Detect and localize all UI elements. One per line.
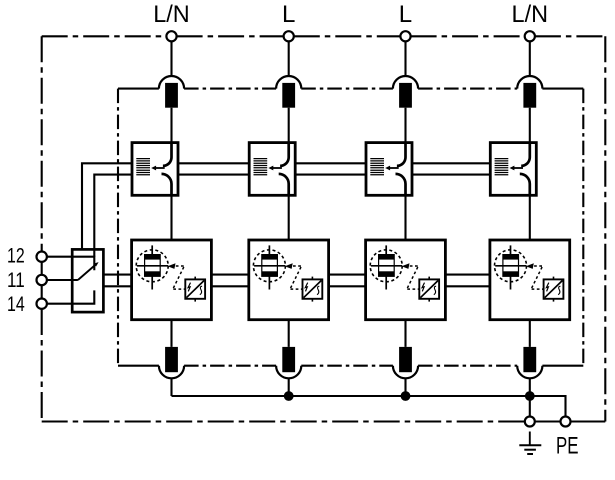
wire SG3 to varistor module MOV3 xyxy=(404,195,406,240)
disconnector F3 fuse body xyxy=(399,83,412,108)
spark gap SG2 trigger arrow xyxy=(273,167,282,169)
MOV2 mechanical linkage (dashed Z) xyxy=(290,266,302,289)
wire F1 to spark gap SG1 xyxy=(170,108,172,143)
svg-text:L: L xyxy=(282,1,295,28)
terminal 12 circle xyxy=(37,252,47,262)
terminal L/N circle column 1 xyxy=(166,31,176,41)
remote signalling contact box K1 xyxy=(72,249,103,312)
wire terminal 12 NC contact xyxy=(47,257,94,271)
trigger bus wires SG1-SG2 xyxy=(178,163,249,174)
outer enclosure border right xyxy=(604,36,606,421)
spark gap SG2 electrode wire top xyxy=(280,143,289,166)
wire terminal 4 to disconnector F4 xyxy=(529,41,531,76)
wire SG2 to varistor module MOV2 xyxy=(288,195,290,240)
MOV1 thermal disconnect fuse symbol xyxy=(137,245,168,289)
svg-text:11: 11 xyxy=(7,269,25,292)
monitoring bus wires row2 segment 2 xyxy=(211,275,248,287)
wire FB3 to PE bus xyxy=(404,378,406,396)
monitoring bus wires row2 segment 4 xyxy=(445,275,490,287)
MOV3 thermal disconnect fuse symbol xyxy=(371,245,402,289)
inner module border right xyxy=(582,89,584,366)
spark gap SG1 electrode wire top xyxy=(163,143,172,166)
spark gap SG4 electrode wire top xyxy=(521,143,530,166)
terminal L/N circle column 4 xyxy=(525,31,535,41)
disconnector F4 fuse body xyxy=(523,83,536,108)
wire MOV4 to bottom disconnector FB4 xyxy=(529,320,531,347)
MOV4 mechanical linkage (dashed Z) xyxy=(531,266,543,289)
junction node column2 xyxy=(284,391,294,401)
PE terminal circle xyxy=(561,417,571,427)
wire riser remote contact to SG1 trigger lower xyxy=(94,175,132,257)
junction node column4 xyxy=(525,391,535,401)
MOV4 thermal disconnect fuse symbol xyxy=(495,245,526,289)
spark gap SG1 electrode wire bottom xyxy=(162,174,172,195)
disconnector F1 fuse body xyxy=(165,83,178,108)
contact lever K1 xyxy=(78,264,97,280)
MOV3 disconnection device box xyxy=(419,277,439,302)
outer enclosure border top xyxy=(42,35,167,37)
varistor module MOV1 box xyxy=(132,240,212,320)
inner module border top xyxy=(184,88,276,90)
spark gap SG4 trigger electrode stack xyxy=(495,159,509,175)
spark gap SG4 box xyxy=(490,143,536,196)
wire column4 to PE terminal xyxy=(529,396,531,417)
varistor module MOV3 box xyxy=(366,240,446,320)
outer enclosure border bottom xyxy=(42,420,525,422)
wire MOV2 to bottom disconnector FB2 xyxy=(288,320,290,347)
MOV2 thermal disconnect fuse symbol xyxy=(254,245,285,289)
svg-text:L/N: L/N xyxy=(512,1,549,28)
spark gap SG4 electrode wire bottom xyxy=(520,174,530,195)
monitoring bus wires row2 segment 1 xyxy=(103,275,131,287)
bottom disconnector FB3 arch xyxy=(393,366,418,379)
disconnector F1 arch xyxy=(159,76,184,89)
varistor module MOV4 box xyxy=(490,240,570,320)
terminal L circle column 2 xyxy=(284,31,294,41)
bottom disconnector FB3 fuse body xyxy=(399,347,412,372)
wire MOV3 to bottom disconnector FB3 xyxy=(404,320,406,347)
MOV3 disconnect arrow xyxy=(402,263,410,269)
spark gap SG4 trigger arrow xyxy=(514,167,523,169)
spark gap SG1 trigger electrode stack xyxy=(136,159,150,175)
spark gap SG3 electrode wire bottom xyxy=(396,174,406,195)
MOV3 monitoring circle (dashed) xyxy=(370,250,402,282)
MOV1 monitoring circle (dashed) xyxy=(136,250,168,282)
svg-text:L: L xyxy=(399,1,412,28)
spark gap SG2 electrode wire bottom xyxy=(279,174,289,195)
bottom disconnector FB4 arch xyxy=(517,366,542,379)
wire FB4 to PE bus xyxy=(529,378,531,396)
bottom disconnector FB4 fuse body xyxy=(523,347,536,372)
disconnector F3 arch xyxy=(393,76,418,89)
wire terminal 14 NO contact xyxy=(47,290,94,303)
terminal L circle column 3 xyxy=(400,31,410,41)
inner module border bottom xyxy=(184,365,276,367)
bottom disconnector FB1 fuse body xyxy=(165,347,178,372)
wire terminal 3 to disconnector F3 xyxy=(404,41,406,76)
svg-text:PE: PE xyxy=(556,433,579,460)
MOV2 monitoring circle (dashed) xyxy=(253,250,285,282)
trigger bus wires SG2-SG3 xyxy=(295,163,366,174)
disconnector F2 arch xyxy=(276,76,301,89)
wire SG1 to varistor module MOV1 xyxy=(170,195,172,240)
spark gap SG2 trigger electrode stack xyxy=(254,159,268,175)
disconnector F2 fuse body xyxy=(282,83,295,108)
MOV2 disconnection device box xyxy=(303,277,323,302)
spark gap SG1 trigger arrow xyxy=(156,167,165,169)
spark gap SG3 electrode wire top xyxy=(397,143,406,166)
ground terminal circle xyxy=(525,417,535,427)
svg-text:12: 12 xyxy=(7,244,25,267)
outer enclosure border left xyxy=(41,36,43,251)
wire MOV1 to bottom disconnector FB1 xyxy=(170,320,172,347)
wire SG4 to varistor module MOV4 xyxy=(529,195,531,240)
wire FB2 to PE bus xyxy=(288,378,290,396)
bottom disconnector FB1 arch xyxy=(159,366,184,379)
MOV4 disconnection device box xyxy=(544,277,564,302)
MOV2 disconnect arrow xyxy=(285,263,293,269)
svg-text:L/N: L/N xyxy=(153,1,190,28)
trigger bus wires SG3-SG4 xyxy=(412,163,490,174)
MOV4 monitoring circle (dashed) xyxy=(495,250,527,282)
junction node column3 xyxy=(401,391,411,401)
inner module border left xyxy=(117,89,119,366)
wire riser remote contact to SG1 trigger upper xyxy=(82,163,132,249)
varistor module MOV2 box xyxy=(249,240,329,320)
wire terminal 1 to disconnector F1 xyxy=(170,41,172,76)
ground symbol xyxy=(519,432,541,455)
wire FB1 to PE bus xyxy=(170,378,172,396)
spark gap SG3 box xyxy=(366,143,412,196)
terminal 14 circle xyxy=(37,299,47,309)
MOV4 disconnect arrow xyxy=(526,263,534,269)
bottom disconnector FB2 arch xyxy=(276,366,301,379)
spark gap SG3 trigger arrow xyxy=(390,167,399,169)
spark gap SG3 trigger electrode stack xyxy=(370,159,384,175)
terminal 11 circle xyxy=(37,275,47,285)
PE bus wire xyxy=(172,396,566,417)
spark gap SG2 box xyxy=(249,143,295,196)
wire F3 to spark gap SG3 xyxy=(404,108,406,143)
MOV1 disconnect arrow xyxy=(168,263,176,269)
wire F4 to spark gap SG4 xyxy=(529,108,531,143)
MOV1 mechanical linkage (dashed Z) xyxy=(173,266,185,289)
spark gap SG1 box xyxy=(132,143,178,196)
wire terminal 2 to disconnector F2 xyxy=(288,41,290,76)
wire F2 to spark gap SG2 xyxy=(288,108,290,143)
bottom disconnector FB2 fuse body xyxy=(282,347,295,372)
wire terminal 11 common xyxy=(47,279,78,281)
MOV1 disconnection device box xyxy=(185,277,205,302)
monitoring bus wires row2 segment 3 xyxy=(329,275,366,287)
svg-text:14: 14 xyxy=(7,293,25,316)
disconnector F4 arch xyxy=(517,76,542,89)
MOV3 mechanical linkage (dashed Z) xyxy=(407,266,419,289)
